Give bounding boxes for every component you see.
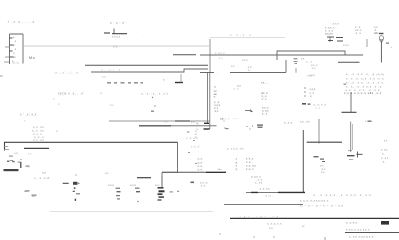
wire 2 <box>139 125 217 127</box>
labels right of Q4 <box>381 139 389 164</box>
wire <box>342 111 357 113</box>
svg-text:. x , x .: . x , x . <box>264 194 273 198</box>
scattered marks right margin <box>187 132 197 165</box>
bus wire main <box>5 142 178 150</box>
svg-text:x .x , x': x .x , x' <box>191 145 200 149</box>
title block top line <box>230 217 399 219</box>
svg-text:. .. .: . .. . <box>216 72 221 75</box>
test point column TP <box>304 87 306 97</box>
svg-text:x.x: x.x <box>231 64 235 68</box>
center pin rows col2 <box>235 157 238 172</box>
title block inner line <box>345 232 399 234</box>
svg-text:x, .x x ;x , x'x: x, .x x ;x , x'x <box>227 147 244 151</box>
transistor Q4 cluster <box>347 151 363 160</box>
svg-text:x, 'x. ;x, .x ,x'x: x, 'x. ;x, .x ,x'x <box>141 92 168 96</box>
svg-text:x: x . x,x: x: x . x,x <box>33 138 45 142</box>
svg-text:x x: x x <box>191 120 195 124</box>
svg-text:x. x, x: .x ,x x.x ;x x, x: x. x, x: .x ,x x.x ;x x, x <box>300 199 329 203</box>
wire <box>161 172 163 187</box>
svg-text:x: x.: x: x. <box>198 167 203 171</box>
svg-text:x(x)x x .x. , .x': x(x)x x .x. , .x' <box>58 92 84 96</box>
svg-text:x.: x. <box>163 78 165 82</box>
svg-text:x.: x. <box>48 177 50 180</box>
svg-text:l,x.,'x,': l,x.,'x,' <box>12 61 20 65</box>
svg-text:x:: x: <box>214 95 216 99</box>
svg-text:x, .x ,x;x: x, .x ,x;x <box>34 176 49 180</box>
edge mark <box>0 76 3 77</box>
svg-text:'x,.;x,l .x: 'x,.;x,l .x <box>100 68 121 72</box>
svg-text:x ' x : x': x ' x : x' <box>110 21 125 25</box>
svg-text:x,x.: x,x. <box>102 75 107 79</box>
wire <box>200 54 363 56</box>
svg-text:x;.: x;. <box>100 91 103 95</box>
connector J1 <box>4 34 23 64</box>
dots bottom <box>219 233 325 240</box>
svg-text:. .. .: . .. . <box>141 33 146 37</box>
svg-text:x.x,x: x.x,x <box>343 43 349 47</box>
wire <box>161 176 163 186</box>
wire <box>109 120 210 122</box>
svg-text:'... ' .. ': '... ' .. ' <box>33 19 42 23</box>
wire double vertical <box>350 122 352 153</box>
wire dark parts <box>251 191 305 193</box>
resistor R15 <box>379 33 384 34</box>
mark <box>191 182 195 184</box>
marks <box>226 125 254 129</box>
svg-text:. x . x . x . x: . x . x . x . x <box>371 74 385 77</box>
wire <box>366 39 368 47</box>
component block K1 <box>327 37 343 42</box>
wire 2 dark part <box>139 125 171 127</box>
svg-text:x.x , x'x: x.x , x'x <box>300 120 310 124</box>
svg-text:x, – x – .x – x – ,x – x.x: x, – x – .x – x – ,x – x.x <box>300 204 344 208</box>
svg-text:x. ,x :x x,: x. ,x :x x, <box>346 221 358 225</box>
svg-text:x, .x :x x.x, ,x .x x;x .x, x:: x, .x :x x.x, ,x .x x;x .x, x:x <box>313 193 372 197</box>
svg-text:x;: x; <box>310 94 312 98</box>
wire <box>295 68 297 73</box>
wire <box>162 171 226 173</box>
center pin rows col3 <box>246 157 256 172</box>
svg-text:x;: x; <box>214 85 216 89</box>
wire <box>180 74 182 83</box>
svg-text:. x , x: . x , x <box>314 107 321 110</box>
bus stub ticks <box>4 147 9 150</box>
wire <box>285 60 287 72</box>
wire <box>246 191 305 193</box>
svg-text:x :x, x: x :x, x <box>246 167 254 171</box>
svg-text:,x . x: ,x . x <box>355 31 362 35</box>
labels under R30 <box>320 164 326 175</box>
resistor R20 <box>9 156 21 163</box>
top right table U3 <box>325 22 379 36</box>
svg-text:x.x,x: x.x,x <box>108 183 114 187</box>
transistor Q5 cluster <box>63 174 80 201</box>
wire <box>210 37 285 39</box>
svg-text:x.': x.' <box>56 129 59 133</box>
svg-text:x,x.x: x,x.x <box>130 183 136 187</box>
diode D2 <box>245 110 253 113</box>
svg-text:x. x:x ,x: x. x:x ,x <box>215 51 225 55</box>
svg-text:.x ,x .x,x: .x ,x .x,x <box>259 187 270 191</box>
net label dashes <box>107 82 143 83</box>
wire L-shape <box>350 92 352 112</box>
svg-text:x . x . x: x . x . x <box>221 118 230 121</box>
svg-text:–x–.: –x–. <box>217 167 223 171</box>
svg-text:x.x,: x.x, <box>269 226 274 230</box>
svg-text:x:x: x:x <box>42 171 46 175</box>
svg-text:x.' ,x; x,x .: x.' ,x; x,x . <box>20 113 39 117</box>
svg-text:x . x, .x ,x: x . x, .x ,x <box>186 136 198 140</box>
marks <box>386 43 389 44</box>
svg-text:x . x : x . x: x . x : x . x <box>230 33 251 37</box>
svg-text:x: x.x ,x .x x, x.x .x: x: x.x ,x .x x, x.x .x <box>346 228 370 232</box>
wire <box>318 119 320 144</box>
junction mark <box>344 84 347 85</box>
svg-text:x, .x x: ,x x.x ;x x, x:: x, .x x: ,x x.x ;x x, x: <box>349 235 374 239</box>
marks <box>25 190 37 195</box>
svg-text:x;x: x;x <box>105 171 109 175</box>
wire <box>338 61 360 63</box>
svg-text:x . x: x . x <box>262 112 268 116</box>
wire <box>224 204 303 206</box>
svg-text:x..: x.. <box>53 98 56 101</box>
svg-text:.x :x: .x :x <box>200 184 206 188</box>
svg-text:x,x: x,x <box>321 170 325 174</box>
bus wire 2 <box>24 147 49 149</box>
svg-text:. – x – . – x – . – x: . – x – . – x – . – x <box>236 215 279 219</box>
svg-text:x·x: x·x <box>164 120 168 124</box>
RC ladder C <box>130 183 140 192</box>
dots <box>222 119 226 129</box>
wire pair down from bus <box>207 73 209 124</box>
svg-text:x: ,x .x: x: ,x .x <box>284 121 293 125</box>
title area text rows <box>300 193 372 208</box>
resistor R12 <box>302 103 311 105</box>
wire <box>307 141 342 143</box>
svg-text:x,x;: x,x; <box>14 151 19 155</box>
wire <box>23 45 209 47</box>
wire <box>173 54 196 56</box>
wire stub <box>204 122 209 124</box>
svg-text:,x;x: ,x;x <box>214 109 219 113</box>
svg-text:-- --: -- -- <box>233 116 238 120</box>
svg-text::x,;.,x'.,,l., ,x: :x,;.,x'.,,l., ,x <box>54 71 78 75</box>
svg-text:x,.: x,. <box>28 166 31 169</box>
svg-text:x'x, . ,: x'x, . , <box>261 81 268 85</box>
svg-text:x ' x: x ' x <box>262 97 267 101</box>
title block rows <box>346 221 370 232</box>
connector J2 dark row <box>4 161 22 172</box>
crystal Y1 <box>104 29 127 34</box>
marks <box>20 159 29 167</box>
small marks <box>151 97 156 112</box>
svg-text:x:x: x:x <box>110 103 114 107</box>
svg-text:,x . x.: ,x . x. <box>233 88 239 91</box>
svg-text:x:x.x,x: x:x.x,x <box>112 35 121 39</box>
svg-text:x..: x.. <box>24 119 27 122</box>
connector J1 pin labels <box>12 35 17 63</box>
wire <box>380 41 382 63</box>
svg-text:.x,x: .x,x <box>311 66 316 70</box>
wire dark part <box>206 171 226 173</box>
mark <box>368 121 372 122</box>
left mid net list text <box>24 119 45 142</box>
svg-text:M.x: M.x <box>29 56 35 60</box>
wire dark part <box>175 120 190 122</box>
svg-text:x.'x: x.'x <box>113 45 118 49</box>
wire stub <box>204 128 210 130</box>
svg-text:.x,: .x, <box>382 160 385 164</box>
svg-text:x.x: x.x <box>384 139 388 143</box>
svg-text:;x,: ;x, <box>235 167 238 171</box>
svg-text:x. , x: x. , x <box>306 60 313 64</box>
dark ladder D <box>137 183 164 202</box>
IC U1 right pin text <box>261 81 269 116</box>
wire <box>162 142 178 172</box>
wire faint bottom <box>50 211 213 213</box>
svg-text:x , x'x: x , x'x <box>255 180 263 184</box>
IC U1 pin text left column <box>214 85 221 114</box>
component R30 <box>314 156 326 162</box>
svg-text:.l. ,x. s,, ... , x: .l. ,x. s,, ... , x <box>7 20 35 24</box>
svg-text:x'x: x'x <box>301 57 305 61</box>
marks <box>170 191 180 193</box>
wire <box>209 73 211 129</box>
svg-text:x:x x: x:x x <box>242 58 248 62</box>
svg-text:x.': x.' <box>302 224 305 228</box>
svg-text:x.x;: x.x; <box>155 183 160 187</box>
wire <box>200 71 286 73</box>
center text rows above pin rows <box>186 136 200 149</box>
left of IC text rows <box>195 122 198 139</box>
wire <box>137 177 151 179</box>
dark dashes <box>257 125 263 128</box>
wire <box>277 51 345 60</box>
logo mark <box>381 221 389 225</box>
svg-text:x;x,x'x: x;x,x'x <box>325 32 333 36</box>
wire <box>91 69 208 72</box>
wire <box>351 124 353 150</box>
wire vertical long <box>302 130 304 192</box>
transistor Q3 (circle symbol) <box>379 36 383 43</box>
net labels center top <box>231 58 252 72</box>
center pin rows col1 <box>198 157 203 172</box>
RC ladder B <box>108 183 121 200</box>
svg-text:x#x: x#x <box>374 31 379 35</box>
resistor R7 <box>175 82 183 84</box>
wire <box>209 39 211 72</box>
wire <box>85 64 208 66</box>
svg-text:x:.x,: x:.x, <box>307 74 312 78</box>
capacitor C2 <box>294 59 298 64</box>
svg-text:x,.: x,. <box>248 68 251 72</box>
svg-text:x'.: x'. <box>58 102 61 106</box>
right top table rows <box>344 72 385 95</box>
svg-text:x.: x. <box>196 122 198 125</box>
svg-text:.x x.: .x x. <box>218 56 223 60</box>
svg-text:x;x,x.x,x:x.x x#x ,x.x: x;x,x.x,x:x.x x#x ,x.x <box>344 91 382 95</box>
bottom middle labels <box>200 180 273 197</box>
labels <box>310 87 316 98</box>
node label row top-left <box>7 19 42 25</box>
